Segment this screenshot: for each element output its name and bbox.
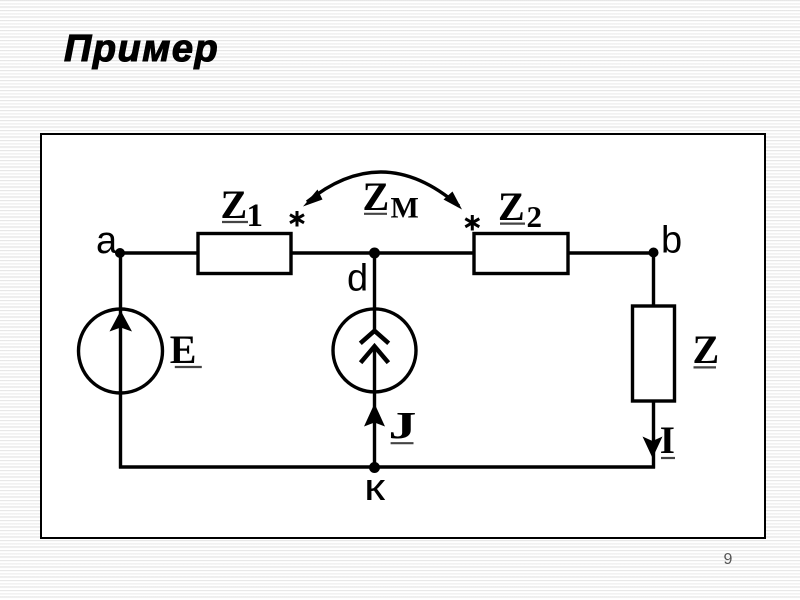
- current source J circle: [333, 309, 416, 392]
- junction dot node b: [649, 248, 659, 258]
- wire a to Z1: [119, 251, 200, 254]
- svg-text:Z: Z: [498, 184, 525, 229]
- svg-text:Z: Z: [363, 174, 390, 219]
- arrowhead of source current J: [364, 404, 385, 427]
- wire Z1 to Z2 through node d: [290, 251, 475, 254]
- wire node a down through source E: [119, 252, 122, 469]
- resistor Z2: [474, 234, 568, 274]
- svg-text:1: 1: [247, 198, 264, 234]
- wire resistor Z down to bottom rail: [652, 400, 655, 469]
- svg-text:b: b: [661, 220, 682, 262]
- svg-text:a: a: [96, 220, 118, 262]
- label J: [389, 404, 417, 447]
- mutual coupling arc arrowhead left: [303, 190, 323, 207]
- resistor Z1: [198, 234, 291, 274]
- current source J chevron upper: [360, 331, 388, 344]
- current source J chevron lower: [361, 346, 389, 362]
- bottom rail wire: [119, 465, 655, 468]
- wire Z2 to node b: [568, 251, 655, 254]
- svg-text:к: к: [364, 467, 385, 509]
- junction dot node a: [115, 248, 125, 258]
- resistor Z: [633, 306, 675, 401]
- arrowhead of current I: [643, 437, 663, 459]
- voltage source E circle: [79, 309, 163, 393]
- arrowhead of source E: [110, 311, 133, 332]
- junction dot node k: [369, 462, 380, 473]
- wire source J down to node k: [373, 348, 376, 469]
- svg-text:Z: Z: [693, 327, 720, 372]
- svg-text:E: E: [170, 327, 197, 372]
- svg-text:Z: Z: [221, 182, 248, 227]
- polarity mark asterisk at Z1: [290, 211, 304, 227]
- wire node d down to source J: [373, 252, 376, 332]
- svg-text:2: 2: [527, 199, 543, 234]
- junction dot node d: [369, 248, 380, 259]
- svg-text:d: d: [347, 258, 368, 300]
- svg-text:J: J: [389, 404, 417, 447]
- mutual coupling arc ZM: [307, 172, 459, 206]
- wire node b down to resistor Z: [652, 252, 655, 309]
- svg-text:I: I: [660, 419, 675, 462]
- mutual coupling arc arrowhead right: [444, 192, 463, 210]
- polarity mark asterisk at Z2: [465, 215, 479, 231]
- svg-text:M: M: [391, 192, 419, 225]
